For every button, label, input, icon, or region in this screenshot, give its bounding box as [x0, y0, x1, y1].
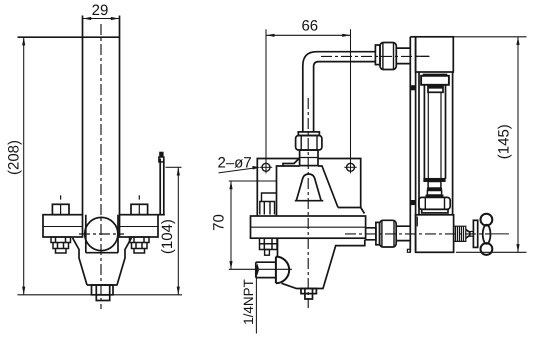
spring window bell: [295, 174, 324, 201]
arrow port bottom: [256, 270, 259, 276]
knob circle: [85, 217, 118, 250]
valve neck: [470, 232, 474, 237]
frame rails: [419, 72, 453, 215]
outlet nut: [380, 220, 397, 247]
flange midline: [251, 226, 366, 228]
fitting nut faces: [383, 43, 394, 70]
left nut stack: [51, 237, 71, 253]
tube end seal band: [424, 178, 445, 181]
top gland step: [428, 85, 443, 92]
right bolt center dash: [138, 195, 140, 199]
top gland band: [428, 85, 443, 88]
valve stem knurl: [454, 226, 466, 241]
svg-text:1/4NPT: 1/4NPT: [241, 279, 256, 325]
top gland lip: [423, 74, 448, 76]
inlet port dome: [276, 257, 289, 284]
right flange plate: [120, 215, 159, 237]
top fitting washer: [298, 132, 319, 136]
spring tube left edge: [82, 16, 84, 215]
bottom packing nut: [419, 197, 450, 209]
left bolt head face line: [60, 204, 62, 214]
centerline knob horizontal: [79, 233, 124, 235]
float lower box: [427, 191, 441, 196]
plate hole left: [262, 163, 270, 171]
left flange midline: [43, 226, 83, 228]
float band 2: [426, 195, 443, 197]
top fitting nut: [296, 136, 322, 151]
handle top ball: [481, 214, 493, 226]
dim 104 extension top: [166, 166, 182, 168]
body square: [86, 215, 118, 253]
arrow 66 right: [342, 34, 350, 37]
plate hole left cross: [260, 166, 272, 168]
bracket stud: [160, 152, 163, 157]
top gland box: [421, 76, 449, 85]
right bolt head face line: [138, 204, 140, 214]
dim 104 line: [177, 167, 179, 294]
dim 208 extension top: [18, 36, 83, 38]
dim 145 line: [517, 37, 519, 253]
arrow 104 top: [177, 167, 180, 175]
bottom stud: [96, 295, 109, 301]
arrow 29 left: [83, 17, 91, 20]
panel foot: [407, 249, 410, 252]
arrow 104 bottom: [177, 287, 180, 295]
panel screw bottom: [411, 200, 415, 204]
dim 66 right extension: [350, 29, 352, 173]
flange bolt head: [260, 202, 275, 215]
left flange plate: [43, 215, 83, 237]
centerline left view vertical: [100, 24, 102, 309]
arrow 66 left: [266, 34, 274, 37]
dim 66 left extension: [265, 29, 267, 173]
spring tube right edge: [119, 16, 121, 215]
bottom block: [416, 215, 454, 253]
top fitting stub: [300, 150, 318, 166]
arrow 29 right: [111, 17, 119, 20]
lower body taper: [73, 238, 132, 285]
dim 145 bottom extension: [456, 251, 527, 253]
inlet pipe elbow inner: [314, 62, 376, 132]
dim 29 line: [83, 18, 119, 20]
left bolt head: [52, 204, 69, 214]
packing nut faces: [425, 197, 444, 209]
body left edge below flange: [277, 238, 279, 256]
packing washer: [422, 209, 448, 213]
top block: [416, 37, 454, 72]
svg-text:70: 70: [211, 214, 228, 231]
flange: [251, 216, 366, 238]
handle hub: [483, 225, 491, 244]
svg-text:2–ø7: 2–ø7: [218, 155, 252, 172]
dim 70 bottom extension / port centerline: [229, 268, 292, 270]
left bolt center dash: [60, 195, 62, 199]
glass tube outer: [424, 85, 445, 179]
arrow 145 bottom: [516, 244, 519, 252]
centerline regulator body: [307, 98, 309, 308]
right bolt head: [131, 204, 148, 214]
handle bottom ball: [481, 243, 493, 255]
clamp step: [262, 193, 277, 202]
bottom stud middle view: [301, 289, 316, 300]
bottom cap: [92, 285, 114, 295]
arrow 208 top: [22, 37, 25, 45]
arrow 70 top: [229, 181, 232, 189]
leader 2-o7: [219, 168, 254, 173]
bracket cap: [159, 157, 164, 162]
spring tube top edge: [83, 36, 120, 38]
handle plate: [473, 220, 477, 247]
pipe stub into flowmeter: [396, 48, 410, 64]
leader 1/4NPT: [255, 266, 257, 334]
arrow port top: [256, 263, 259, 269]
arrow 145 top: [516, 37, 519, 45]
dim 70 line: [230, 181, 232, 269]
plate hole right cross: [344, 166, 356, 168]
top fitting nut faces: [301, 136, 317, 151]
glass tube bore: [428, 92, 441, 178]
dim 145 top extension: [453, 36, 526, 38]
panel front edge: [410, 37, 415, 253]
mounting bracket edge: [160, 159, 164, 215]
mounting plate: [257, 159, 360, 217]
inlet hole line top block: [416, 55, 429, 57]
outlet washer: [376, 222, 380, 244]
outlet boss: [365, 228, 376, 240]
plate hole right: [347, 163, 355, 171]
dim 208 line: [23, 37, 25, 295]
dim 66 line: [266, 34, 350, 36]
fitting nut to flowmeter: [380, 43, 396, 70]
fitting washer to flowmeter: [375, 45, 380, 65]
arrow leader o7: [252, 166, 260, 170]
svg-text:(145): (145): [495, 124, 512, 159]
bracket foot line: [158, 214, 165, 216]
inlet port cylinder: [256, 262, 276, 277]
top fitting stub line: [300, 157, 318, 159]
body lower outline: [282, 240, 365, 289]
flange nut below: [260, 238, 278, 249]
arrow 70 bottom: [229, 261, 232, 269]
outlet nut faces: [382, 220, 394, 247]
bonnet outline: [277, 158, 365, 216]
plate lower edge: [229, 180, 277, 182]
right nut stack: [130, 237, 150, 253]
bottom extension line left view: [18, 294, 183, 296]
flow line tail: [491, 233, 509, 235]
bottom block inlet hole: [416, 217, 418, 227]
svg-text:29: 29: [92, 2, 109, 19]
float guide box: [428, 182, 441, 189]
svg-text:(208): (208): [6, 140, 23, 175]
svg-text:66: 66: [301, 17, 318, 34]
right flange midline: [120, 226, 159, 228]
float band 1: [427, 188, 441, 191]
flange nut stud: [265, 250, 270, 256]
centerline top pipe: [321, 55, 430, 57]
centerline outlet flow: [345, 233, 491, 235]
panel screw top: [411, 86, 415, 90]
svg-text:(104): (104): [159, 219, 176, 254]
valve cone: [466, 230, 470, 239]
outlet pipe: [396, 226, 410, 240]
arrow 208 bottom: [22, 287, 25, 295]
inlet pipe elbow outer: [303, 52, 376, 132]
